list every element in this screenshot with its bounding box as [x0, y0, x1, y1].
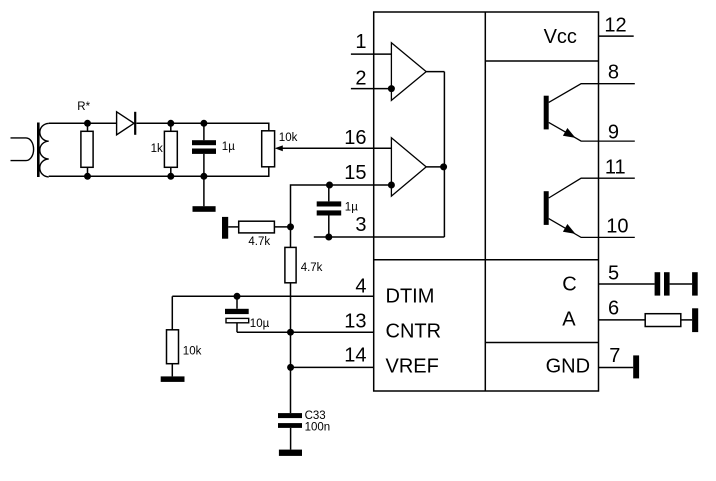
svg-text:VREF: VREF [386, 355, 439, 377]
svg-text:CNTR: CNTR [386, 321, 442, 343]
node pin4 junction [234, 293, 241, 300]
resistor 4.7k vertical body [285, 247, 296, 282]
transistor Q1 base bar [544, 96, 549, 130]
ground (under cap1) [193, 206, 216, 212]
node cap1 top [200, 120, 207, 127]
node A2 output [440, 163, 447, 170]
svg-text:Vcc: Vcc [544, 26, 577, 48]
node cap1 bottom [200, 173, 207, 180]
svg-text:1: 1 [355, 31, 366, 53]
svg-text:3: 3 [355, 214, 366, 236]
wire gnd to 4.7k [228, 226, 239, 228]
svg-text:10: 10 [606, 215, 628, 237]
ground (pin7) [633, 355, 639, 378]
node R* top [84, 120, 91, 127]
IC U1 outline [374, 12, 599, 391]
svg-text:DTIM: DTIM [386, 286, 435, 308]
IC divider horizontal [374, 259, 599, 261]
svg-text:15: 15 [344, 162, 366, 184]
node cap2 top [326, 182, 333, 189]
IC divider vertical [484, 12, 486, 391]
svg-text:1µ: 1µ [345, 202, 358, 214]
wire 4.7k to node [274, 226, 290, 228]
svg-text:16: 16 [344, 127, 366, 149]
wire pin1 [351, 53, 392, 55]
svg-text:4.7k: 4.7k [301, 262, 323, 274]
resistor 4.7k horizontal body [239, 221, 275, 233]
transistor Q2 base bar [544, 191, 549, 225]
capacitor C33 plates [278, 413, 302, 418]
svg-text:10k: 10k [183, 346, 202, 358]
potentiometer 10k body [262, 131, 275, 167]
svg-text:10k: 10k [279, 132, 298, 144]
wire C33 to ground [290, 428, 292, 450]
Q2 emitter arrow [563, 224, 576, 234]
resistor on pin6 [645, 314, 681, 327]
svg-text:C: C [562, 274, 576, 296]
resistor 10k body [167, 330, 179, 364]
transformer T1 core [37, 123, 40, 178]
wire pin4 [172, 295, 373, 297]
svg-text:1µ: 1µ [222, 141, 235, 153]
wire pin7 [599, 367, 634, 369]
op-amp A1 [391, 43, 426, 101]
op-amp A2 [391, 138, 426, 196]
wire A1 output [426, 71, 444, 73]
svg-text:7: 7 [609, 345, 620, 367]
svg-text:9: 9 [608, 122, 619, 144]
svg-text:4.7k: 4.7k [248, 236, 270, 248]
transformer T1 secondary winding [40, 123, 49, 176]
wire A2 output [426, 166, 444, 168]
svg-text:1k: 1k [151, 143, 163, 155]
wire 1k stubs [170, 123, 172, 176]
svg-text:14: 14 [344, 344, 366, 366]
resistor 1k body [164, 131, 177, 167]
capacitor 10u plus plate [225, 309, 249, 314]
capacitor C 1u (left) [192, 140, 216, 145]
svg-text:13: 13 [344, 310, 366, 332]
Q1 emitter arrow [563, 128, 576, 138]
wire pin13 [237, 331, 374, 333]
node 1k top [167, 120, 174, 127]
wire pin12 [599, 35, 634, 37]
node 4.7k junction [287, 223, 294, 230]
ground (under C33) [279, 450, 302, 456]
wire Q1 collector pin8 [549, 84, 635, 103]
wire pin2 [351, 88, 392, 90]
node pin14 junction [287, 364, 294, 371]
wire: diode cathode to pot top [136, 123, 268, 131]
wire Q1 emitter pin9 [549, 122, 635, 141]
svg-text:5: 5 [608, 263, 619, 285]
ground (pin6) [692, 308, 698, 332]
wire pin6 [599, 319, 646, 321]
wire pin15 [291, 185, 392, 247]
node pin13 junction [287, 329, 294, 336]
wire 10k to ground [171, 364, 173, 377]
ground (under 10k) [161, 376, 185, 382]
wire output bus to pin3 [443, 72, 445, 237]
diode D1 [117, 112, 134, 135]
ground (4.7k horizontal) [222, 217, 228, 239]
node 1k bottom [167, 173, 174, 180]
GND box top line [485, 342, 598, 344]
svg-text:10µ: 10µ [250, 318, 270, 330]
wire pin3 [314, 236, 445, 238]
svg-text:GND: GND [546, 355, 590, 377]
svg-text:8: 8 [608, 62, 619, 84]
resistor R* body [81, 131, 93, 167]
node pin2 input [388, 85, 395, 92]
svg-text:12: 12 [604, 14, 626, 36]
wire Q2 emitter pin10 [549, 219, 635, 238]
svg-text:C33: C33 [305, 410, 326, 422]
svg-text:6: 6 [608, 297, 619, 319]
svg-text:R*: R* [77, 101, 90, 113]
node R* bottom [84, 173, 91, 180]
svg-text:2: 2 [355, 67, 366, 89]
wire cap1 stubs [203, 123, 205, 206]
Vcc box bottom line [485, 60, 598, 62]
wire Q2 collector pin11 [549, 178, 635, 198]
svg-text:11: 11 [605, 157, 626, 179]
wire pin14 [291, 366, 374, 368]
wire pin5 [599, 283, 655, 285]
svg-text:A: A [562, 309, 576, 331]
wire cap5 to ground [670, 283, 693, 285]
capacitor on pin5 [655, 272, 661, 295]
node pin15 input [388, 182, 395, 189]
svg-text:100n: 100n [305, 421, 331, 433]
wire down to 10k [171, 296, 173, 330]
wire R* stubs [87, 123, 89, 176]
wire: secondary bottom rail [49, 167, 269, 177]
ground (pin5) [692, 272, 698, 295]
transformer T1 primary winding [11, 138, 34, 161]
wire pin16 to pot wiper [277, 147, 391, 149]
wire res6 to ground [681, 319, 692, 321]
wire cap2 stubs [328, 185, 330, 237]
capacitor 10u minus plate [226, 318, 249, 322]
node cap2 bottom [325, 234, 332, 241]
wire: secondary top to diode anode [49, 122, 117, 124]
wire 10u stubs [236, 296, 238, 332]
pot wiper arrow [275, 145, 283, 151]
capacitor C 1u (middle) [317, 201, 342, 206]
wire 4.7k vertical down through nodes to C33 [290, 283, 292, 413]
svg-text:4: 4 [355, 276, 366, 298]
